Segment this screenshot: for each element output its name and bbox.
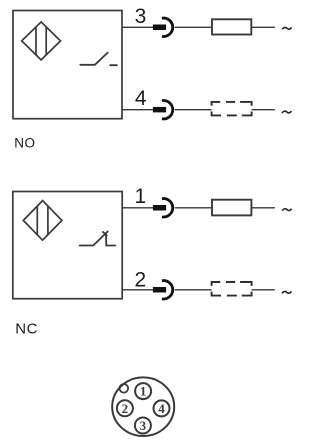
load resistor (solid, line 1) bbox=[212, 200, 251, 216]
load resistor (dashed, line 4) bbox=[212, 102, 252, 116]
wire terminal 1 (box to plug) bbox=[122, 207, 153, 209]
svg-text:3: 3 bbox=[135, 5, 147, 28]
wire (plug to load, line 1) bbox=[175, 207, 212, 209]
proximity sensor diamond symbol (NO block) bbox=[22, 22, 61, 60]
svg-text:NO: NO bbox=[14, 136, 35, 151]
connector plug pin 3 bbox=[153, 18, 173, 36]
load resistor (dashed, line 2) bbox=[212, 282, 252, 296]
NC switch contact bbox=[80, 231, 116, 245]
sensor body box (NC block) bbox=[13, 192, 122, 299]
load resistor (solid, line 3) bbox=[212, 19, 251, 34]
wire (load to source, line 4) bbox=[252, 109, 275, 111]
wire (load to source, line 1) bbox=[251, 207, 275, 209]
wire terminal 4 (box to plug) bbox=[122, 109, 153, 111]
connector plug pin 4 bbox=[153, 101, 173, 119]
AC source tilde (line 2) bbox=[282, 291, 291, 293]
svg-text:4: 4 bbox=[158, 401, 165, 416]
proximity sensor diamond symbol (NC block) bbox=[23, 201, 62, 241]
svg-text:NC: NC bbox=[15, 320, 38, 337]
keyway notch bbox=[120, 384, 129, 393]
connector plug pin 1 bbox=[153, 199, 173, 217]
wire terminal 2 (box to plug) bbox=[122, 289, 153, 291]
svg-text:3: 3 bbox=[140, 418, 147, 433]
wire (load to source, line 3) bbox=[251, 26, 275, 28]
connector plug pin 2 bbox=[153, 281, 173, 299]
wire terminal 3 (box to plug) bbox=[122, 26, 153, 28]
pin 3 circle bbox=[135, 418, 151, 434]
AC source tilde (line 4) bbox=[282, 111, 291, 113]
wire (plug to load, line 2) bbox=[175, 289, 212, 291]
wire (plug to load, line 4) bbox=[175, 109, 212, 111]
sensor body box (NO block) bbox=[13, 11, 122, 119]
AC source tilde (line 3) bbox=[282, 27, 291, 29]
svg-text:4: 4 bbox=[135, 87, 147, 110]
pin 2 circle bbox=[117, 400, 133, 416]
svg-text:1: 1 bbox=[140, 384, 147, 399]
wire (load to source, line 2) bbox=[252, 289, 275, 291]
wire (plug to load, line 3) bbox=[175, 26, 212, 28]
pin 1 circle bbox=[135, 383, 151, 399]
svg-text:2: 2 bbox=[122, 401, 129, 416]
svg-text:1: 1 bbox=[135, 185, 147, 208]
pin 4 circle bbox=[154, 400, 170, 416]
svg-text:2: 2 bbox=[135, 269, 147, 292]
AC source tilde (line 1) bbox=[282, 209, 291, 211]
M12 connector face outline bbox=[112, 377, 174, 436]
NO switch contact bbox=[80, 53, 117, 66]
